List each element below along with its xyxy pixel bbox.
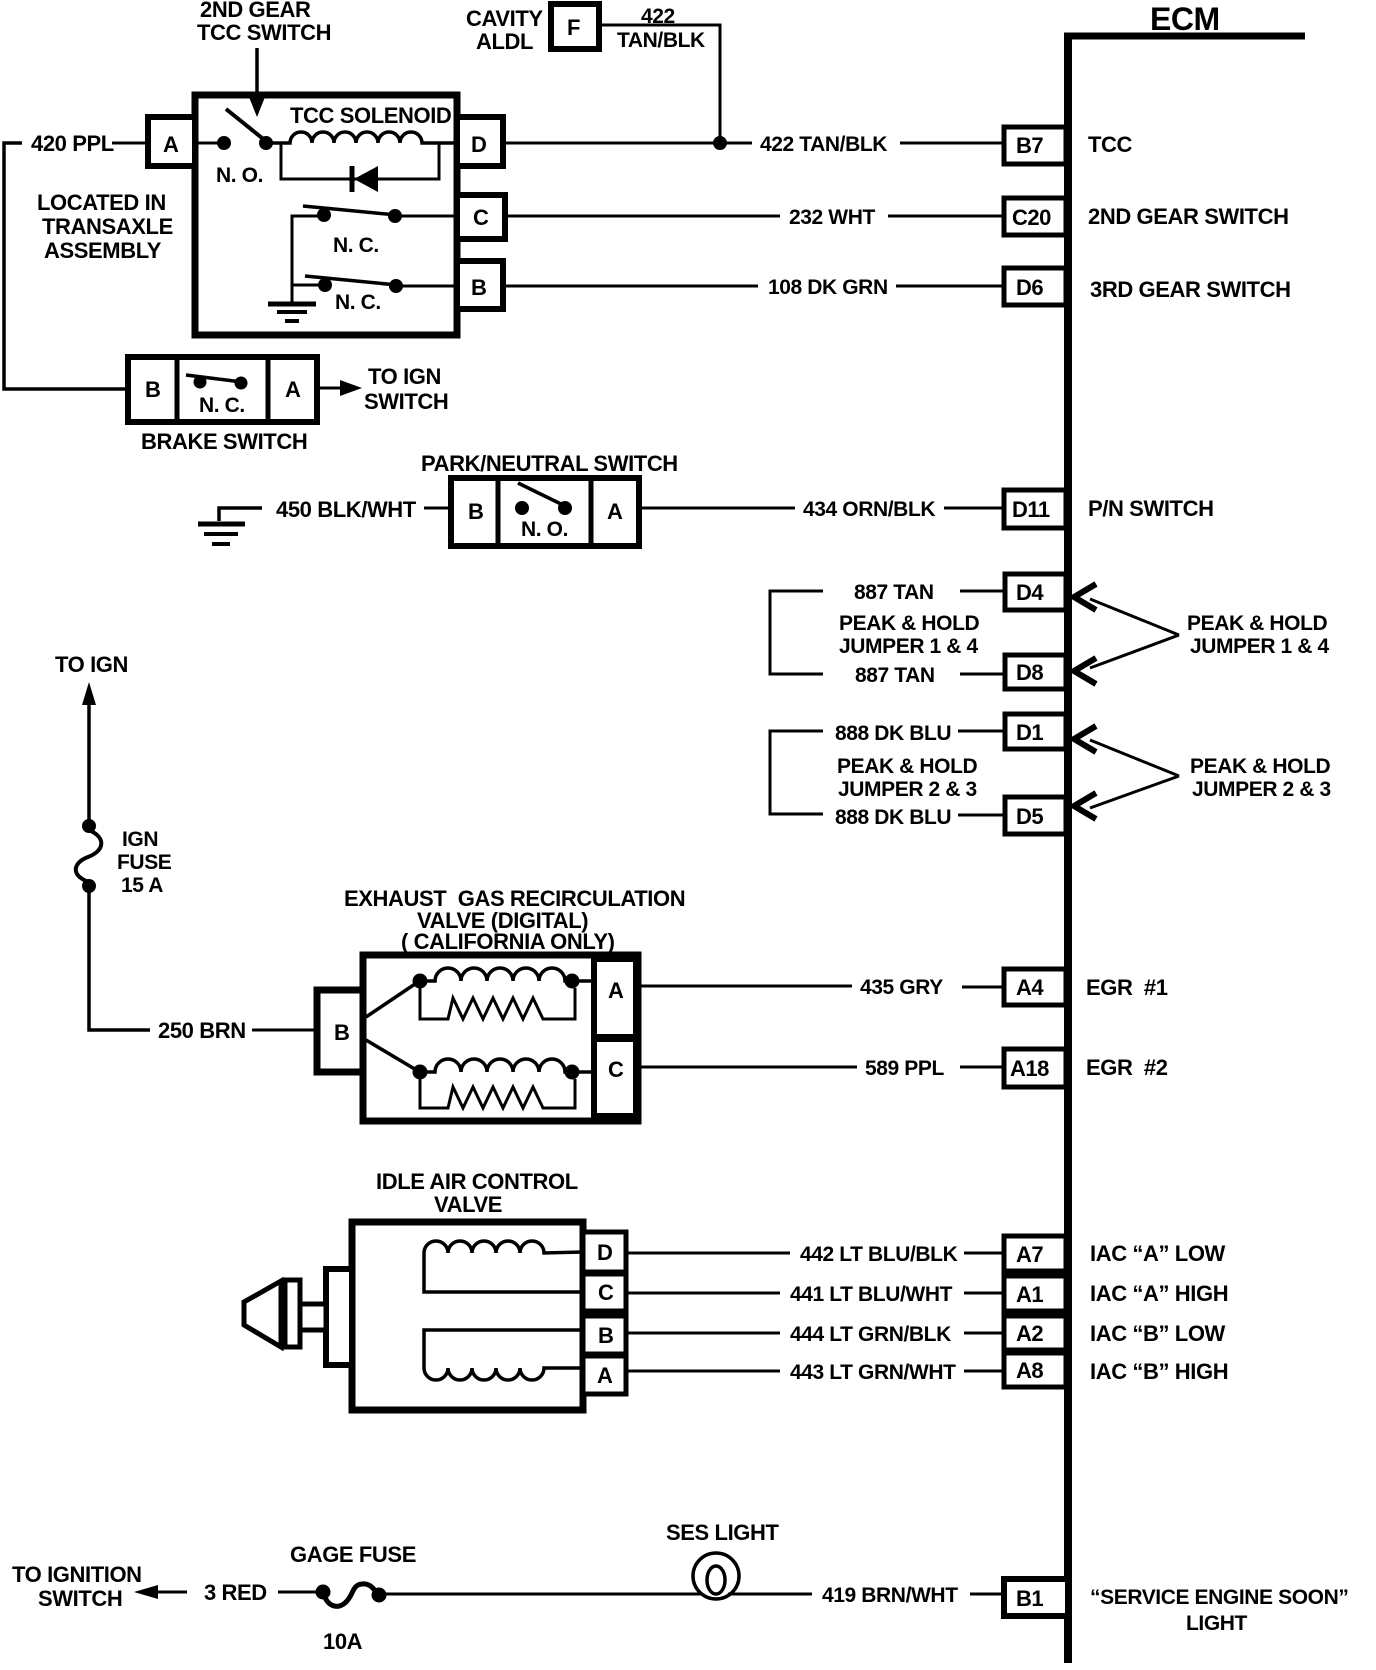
junction dot EGR coil 2 right [565,1065,580,1080]
solenoid coil EGR 2 [420,1059,594,1072]
pin A4 [1004,969,1066,1005]
node GAGE FUSE label [290,1542,416,1567]
node ECM header [1150,1,1220,37]
svg-text:888 DK BLU: 888 DK BLU [835,722,951,745]
node CAVITY ALDL label [466,6,543,54]
park/neutral switch box [451,478,639,546]
svg-text:PEAK & HOLD: PEAK & HOLD [1187,612,1328,635]
wire 108 DK GRN left segment [503,285,758,288]
TCC solenoid assembly box [195,95,457,335]
svg-text:2ND GEAR: 2ND GEAR [200,0,311,22]
node 419 BRN/WHT label [822,1584,958,1607]
svg-text:A4: A4 [1016,975,1044,1000]
svg-text:CAVITY: CAVITY [466,6,543,31]
IAC pintle bar [285,1280,300,1347]
svg-text:A7: A7 [1016,1242,1043,1267]
wire 444 LT GRN/BLK left segment [626,1332,780,1335]
switch blade N.C. (2nd gear) [303,206,396,215]
svg-text:PEAK & HOLD: PEAK & HOLD [1190,755,1331,778]
pin A8 [1004,1353,1066,1387]
wire arrow to TCC switch [249,48,265,117]
wire 442 LT BLU/BLK to pin A7 [964,1252,1004,1255]
pin B (P/N switch) [468,499,483,524]
node 434 ORN/BLK label [803,498,935,521]
solenoid coil TCC [266,132,457,143]
wire gage fuse to SES light [386,1593,704,1596]
svg-text:IAC “A” LOW: IAC “A” LOW [1090,1241,1226,1266]
svg-text:P/N SWITCH: P/N SWITCH [1088,496,1214,521]
contact dot (3rd gear N.C. left) [318,278,332,292]
wire EGR feed split lower [366,1040,418,1071]
wire 435 GRY to pin A4 [962,986,1004,989]
node IAC B LOW label [1090,1321,1226,1346]
resistor EGR 2 [420,1079,575,1108]
fuse terminal dot (gage fuse right) [372,1588,387,1603]
ground (P/N switch) [198,508,262,544]
svg-text:3 RED: 3 RED [204,1580,267,1605]
wire 3rd gear switch feed [292,284,319,287]
svg-text:BRAKE SWITCH: BRAKE SWITCH [141,429,307,454]
svg-text:( CALIFORNIA ONLY): ( CALIFORNIA ONLY) [401,929,615,954]
pin B1 [1004,1579,1068,1616]
pin D6 [1004,268,1066,305]
svg-text:ECM: ECM [1150,1,1220,37]
node 450 BLK/WHT label [276,497,417,522]
pin B (IAC) [583,1316,626,1354]
svg-text:TO IGN: TO IGN [55,652,128,677]
svg-text:422 TAN/BLK: 422 TAN/BLK [760,133,887,156]
node TCC SOLENOID label [290,103,451,128]
svg-text:TAN/BLK: TAN/BLK [617,29,705,52]
svg-text:D: D [471,132,486,157]
svg-text:FUSE: FUSE [117,851,172,874]
svg-text:A: A [597,1363,613,1388]
IAC valve box [352,1222,583,1410]
pin A7 [1004,1236,1066,1271]
svg-text:N. C.: N. C. [335,291,381,314]
svg-text:435 GRY: 435 GRY [860,976,943,999]
svg-text:JUMPER 2 & 3: JUMPER 2 & 3 [1192,778,1331,801]
IAC pintle cone [244,1281,281,1347]
wire diode loop [281,143,439,179]
pin D (TCC) [457,117,503,166]
contact dot 2 (N.O. switch) [259,136,273,150]
svg-text:B: B [598,1323,613,1348]
svg-text:N. C.: N. C. [333,234,379,257]
node SES LIGHT label [666,1520,779,1545]
svg-text:D6: D6 [1016,275,1043,300]
wire arrow to D4 [1074,584,1179,635]
svg-text:PEAK & HOLD: PEAK & HOLD [839,612,980,635]
svg-text:A: A [163,132,179,157]
svg-text:B: B [145,377,160,402]
wire 434 ORN/BLK to pin D11 [944,507,1004,510]
node PEAK & HOLD JUMPER 2 & 3 label (left) [837,755,978,801]
node IGN FUSE 15 A label [117,828,172,897]
wire from F to junction [599,25,720,143]
svg-text:D5: D5 [1016,804,1043,829]
svg-text:B: B [468,499,483,524]
wire EGR feed split upper [366,982,418,1017]
wire 887 TAN to pin D8 [960,673,1005,676]
node LOCATED IN TRANSAXLE ASSEMBLY label [37,190,173,263]
node 887 TAN label (upper) [854,581,934,604]
svg-text:420 PPL: 420 PPL [31,131,114,156]
wire 3rd gear switch to pin B [396,285,457,288]
node 3RD GEAR SWITCH label [1090,277,1291,302]
pin D1 [1005,714,1066,749]
wire 232 WHT to pin C20 [888,215,1004,218]
wire 422 TAN/BLK left segment [503,142,752,145]
svg-text:887 TAN: 887 TAN [854,581,934,604]
pin C (IAC) [583,1274,626,1311]
svg-text:F: F [567,15,580,40]
svg-text:A: A [285,377,301,402]
node PARK/NEUTRAL SWITCH label [421,451,678,476]
svg-text:434 ORN/BLK: 434 ORN/BLK [803,498,935,521]
diode D (freewheel, cathode bar left) [352,166,378,192]
node N.C. label (brake switch) [199,394,245,417]
svg-text:ALDL: ALDL [476,29,533,54]
svg-text:450 BLK/WHT: 450 BLK/WHT [276,497,417,522]
wire IGN fuse down to 250 BRN [89,890,150,1030]
brake switch box [128,357,317,422]
node N.C. label (3rd gear) [335,291,381,314]
pin A (IAC) [583,1356,626,1394]
pin A18 [1004,1049,1066,1087]
svg-text:D1: D1 [1016,720,1043,745]
svg-text:A18: A18 [1010,1056,1049,1081]
svg-text:PARK/NEUTRAL SWITCH: PARK/NEUTRAL SWITCH [421,451,678,476]
wire 589 PPL left segment [636,1066,857,1069]
pin B7 [1004,127,1066,164]
svg-text:TCC: TCC [1088,132,1133,157]
solenoid coil EGR 1 [420,968,594,981]
pin C (TCC) [457,195,505,239]
pin D (IAC) [583,1232,626,1272]
node 444 LT GRN/BLK label [790,1323,951,1346]
svg-text:A: A [608,978,624,1003]
pin A (P/N switch) [607,499,623,524]
svg-text:VALVE: VALVE [434,1192,502,1217]
wire 108 DK GRN to pin D6 [896,285,1004,288]
wire 2nd gear switch to pin C [395,215,457,218]
wire 450 BLK/WHT to P/N switch [424,507,451,510]
pin A (brake switch) [285,377,301,402]
wire 2nd gear switch feed [292,216,318,302]
switch blade N.C. (3rd gear) [305,276,397,285]
svg-text:ASSEMBLY: ASSEMBLY [44,238,162,263]
node 442 LT BLU/BLK label [800,1243,958,1266]
fuse GAGE FUSE 10A [323,1584,379,1606]
node SERVICE ENGINE SOON LIGHT label [1090,1586,1348,1635]
node EGR #2 label [1086,1055,1168,1080]
svg-text:441 LT BLU/WHT: 441 LT BLU/WHT [790,1283,953,1306]
pin A2 [1004,1316,1066,1350]
solenoid coil IAC A (top) [424,1241,583,1253]
wire 441 LT BLU/WHT to pin A1 [964,1292,1004,1295]
pin A (TCC) [148,117,195,166]
svg-text:108 DK GRN: 108 DK GRN [768,276,888,299]
wire IAC coil B feed [424,1330,583,1368]
wire 888 DK BLU to pin D1 [958,730,1005,733]
wire jumper bracket 887 TAN [770,591,823,674]
junction dot EGR coil 1 right [565,974,580,989]
node 10A label [323,1629,363,1654]
contact dot (3rd gear N.C. right) [389,279,403,293]
node 589 PPL label [865,1057,944,1080]
svg-text:TRANSAXLE: TRANSAXLE [42,214,173,239]
svg-text:TCC SWITCH: TCC SWITCH [197,20,331,45]
wire 443 LT GRN/WHT left segment [626,1370,780,1373]
wire 420 PPL left loop to brake switch [4,143,128,389]
svg-text:LOCATED IN: LOCATED IN [37,190,166,215]
solenoid coil IAC B (bottom) [424,1368,583,1380]
pin B (brake switch) [145,377,160,402]
svg-text:D11: D11 [1012,497,1050,522]
wire arrow to D1 [1074,726,1179,776]
ground (TCC solenoid) [268,304,316,321]
node 443 LT GRN/WHT label [790,1361,956,1384]
svg-text:C: C [608,1057,624,1082]
contact dot (2nd gear N.C. right) [388,209,402,223]
svg-text:443 LT GRN/WHT: 443 LT GRN/WHT [790,1361,956,1384]
wire 442 LT BLU/BLK left segment [626,1252,790,1255]
wire jumper bracket 888 DK BLU [770,731,823,814]
contact dot (brake switch right) [235,377,248,390]
node 422 TAN/BLK label [760,133,887,156]
contact dot (2nd gear N.C. left) [317,208,331,222]
pin D5 [1005,797,1066,834]
IAC pintle stem [300,1304,326,1330]
svg-text:250 BRN: 250 BRN [158,1018,246,1043]
svg-text:IAC “A” HIGH: IAC “A” HIGH [1090,1281,1228,1306]
junction dot EGR coil 1 left [413,974,428,989]
svg-text:C: C [598,1280,614,1305]
wire 3 RED to gage fuse [278,1591,318,1594]
wire ECM top bar [1064,33,1305,40]
svg-text:10A: 10A [323,1629,363,1654]
svg-text:TO IGNITION: TO IGNITION [12,1562,142,1587]
node 250 BRN label [158,1018,246,1043]
EGR valve box [363,955,638,1121]
wire 888 DK BLU to pin D5 [958,814,1005,817]
pin A (EGR) [594,959,636,1037]
svg-text:888 DK BLU: 888 DK BLU [835,806,951,829]
pin A1 [1004,1276,1066,1311]
node 888 DK BLU label (lower) [835,806,951,829]
junction dot 422 [713,136,727,150]
node 2ND GEAR SWITCH label [1088,204,1289,229]
contact dot (brake switch left) [194,376,207,389]
node IDLE AIR CONTROL VALVE label [376,1169,578,1217]
svg-text:GAGE FUSE: GAGE FUSE [290,1542,416,1567]
svg-text:JUMPER 1 & 4: JUMPER 1 & 4 [1190,635,1329,658]
node TO IGN label [55,652,128,677]
node PEAK & HOLD JUMPER 2 & 3 label (right) [1190,755,1331,801]
svg-text:IDLE AIR CONTROL: IDLE AIR CONTROL [376,1169,578,1194]
wire 434 ORN/BLK left segment [639,507,795,510]
wire 232 WHT left segment [505,215,780,218]
wire 420 PPL to pin A [112,142,148,145]
svg-text:A: A [607,499,623,524]
lamp SES light [693,1553,739,1599]
svg-text:D8: D8 [1016,660,1043,685]
node PEAK & HOLD JUMPER 1 & 4 label (left) [839,612,980,658]
svg-text:232 WHT: 232 WHT [789,206,875,229]
node IAC A LOW label [1090,1241,1226,1266]
contact dot 1 (N.O. switch) [217,136,231,150]
svg-text:C: C [473,205,489,230]
svg-text:EGR #2: EGR #2 [1086,1055,1168,1080]
svg-text:A8: A8 [1016,1358,1043,1383]
pin B (EGR) [317,990,363,1072]
svg-text:444 LT GRN/BLK: 444 LT GRN/BLK [790,1323,951,1346]
svg-text:IAC “B” HIGH: IAC “B” HIGH [1090,1359,1228,1384]
node IAC B HIGH label [1090,1359,1228,1384]
wire SES light to 419 BRN/WHT [728,1593,812,1596]
junction dot EGR coil 2 left [413,1065,428,1080]
svg-text:15 A: 15 A [121,874,163,897]
node 108 DK GRN label [768,276,888,299]
fuse terminal dot (IGN fuse bottom) [82,879,96,893]
wire 250 BRN to EGR pin B [252,1029,317,1032]
svg-text:N. O.: N. O. [521,518,568,541]
wire ECM vertical bus [1064,33,1072,1663]
svg-text:A1: A1 [1016,1282,1043,1307]
resistor EGR 1 [420,988,575,1019]
svg-text:SWITCH: SWITCH [364,389,448,414]
node 441 LT BLU/WHT label [790,1283,953,1306]
wire 422 TAN/BLK to pin B7 [900,142,1004,145]
svg-text:887 TAN: 887 TAN [855,664,935,687]
svg-text:TCC SOLENOID: TCC SOLENOID [290,103,451,128]
switch blade N.O. (P/N switch) [518,483,563,505]
pin D4 [1005,574,1066,610]
fuse terminal dot (gage fuse left) [316,1585,331,1600]
node N.O. label (TCC switch) [216,164,263,187]
svg-text:EGR #1: EGR #1 [1086,975,1168,1000]
wire brake switch to ign switch with arrow [317,380,362,396]
svg-text:D: D [597,1240,612,1265]
wire pin A to switch contact [195,142,224,145]
wire 444 LT GRN/BLK to pin A2 [964,1332,1004,1335]
wire to ignition switch with arrow left [134,1585,187,1599]
svg-text:B: B [334,1020,349,1045]
svg-text:IGN: IGN [122,828,158,851]
svg-text:TO IGN: TO IGN [368,364,441,389]
connector F (ALDL cavity) [551,4,599,49]
svg-text:N. C.: N. C. [199,394,245,417]
svg-text:A2: A2 [1016,1321,1043,1346]
node PEAK & HOLD JUMPER 1 & 4 label (right) [1187,612,1329,658]
contact dot (P/N right) [558,501,572,515]
node EXHAUST GAS RECIRCULATION VALVE label [344,886,685,954]
node 2ND GEAR TCC SWITCH label [197,0,331,45]
pin B (TCC) [457,261,503,309]
svg-text:“SERVICE ENGINE SOON”: “SERVICE ENGINE SOON” [1090,1586,1348,1609]
svg-text:JUMPER 1 & 4: JUMPER 1 & 4 [839,635,978,658]
node BRAKE SWITCH label [141,429,307,454]
svg-text:SWITCH: SWITCH [38,1586,122,1611]
fuse terminal dot (IGN fuse top) [82,819,96,833]
svg-text:JUMPER 2 & 3: JUMPER 2 & 3 [838,778,977,801]
node N.O. label (P/N switch) [521,518,568,541]
wire arrow to D8 [1074,635,1179,684]
wire 589 PPL to pin A18 [960,1066,1004,1069]
svg-text:PEAK & HOLD: PEAK & HOLD [837,755,978,778]
node TO IGN SWITCH label [364,364,448,414]
pin D8 [1005,655,1066,689]
node 887 TAN label (lower) [855,664,935,687]
switch blade N.O. (2nd gear TCC switch) [226,109,267,142]
node 422 TAN/BLK label (ALDL branch) [617,5,705,52]
svg-text:589 PPL: 589 PPL [865,1057,944,1080]
node EGR #1 label [1086,975,1168,1000]
pin D11 [1004,490,1066,528]
node 435 GRY label [860,976,943,999]
svg-text:SES LIGHT: SES LIGHT [666,1520,779,1545]
svg-text:B7: B7 [1016,133,1043,158]
wire 435 GRY left segment [636,985,852,988]
node P/N SWITCH label [1088,496,1214,521]
node 3 RED label [204,1580,267,1605]
svg-text:B1: B1 [1016,1586,1043,1611]
svg-text:442 LT BLU/BLK: 442 LT BLU/BLK [800,1243,958,1266]
svg-text:LIGHT: LIGHT [1186,1612,1248,1635]
wire arrow to D5 [1074,776,1179,819]
wire 443 LT GRN/WHT to pin A8 [964,1370,1004,1373]
node IAC A HIGH label [1090,1281,1228,1306]
wire to IGN with arrow up [82,682,96,825]
node 420 PPL label [31,131,114,156]
node N.C. label (2nd gear) [333,234,379,257]
svg-text:N. O.: N. O. [216,164,263,187]
node 888 DK BLU label (upper) [835,722,951,745]
svg-text:IAC “B” LOW: IAC “B” LOW [1090,1321,1226,1346]
svg-text:C20: C20 [1012,205,1051,230]
wire 887 TAN to pin D4 [960,590,1005,593]
wire IAC coil A return [424,1253,583,1292]
svg-text:D4: D4 [1016,580,1044,605]
node TCC label [1088,132,1133,157]
pin C (EGR) [594,1039,636,1116]
fuse IGN FUSE 15A [76,830,102,882]
IAC body step [326,1269,352,1365]
node 232 WHT label [789,206,875,229]
wire 419 BRN/WHT to pin B1 [970,1593,1004,1596]
svg-text:419 BRN/WHT: 419 BRN/WHT [822,1584,958,1607]
switch blade N.C. (brake switch) [186,375,242,382]
contact dot (P/N left) [515,501,529,515]
wire 441 LT BLU/WHT left segment [626,1292,780,1295]
svg-text:2ND GEAR SWITCH: 2ND GEAR SWITCH [1088,204,1289,229]
pin C20 [1004,198,1066,235]
svg-text:B: B [471,275,486,300]
svg-text:3RD GEAR SWITCH: 3RD GEAR SWITCH [1090,277,1291,302]
node TO IGNITION SWITCH label [12,1562,142,1611]
